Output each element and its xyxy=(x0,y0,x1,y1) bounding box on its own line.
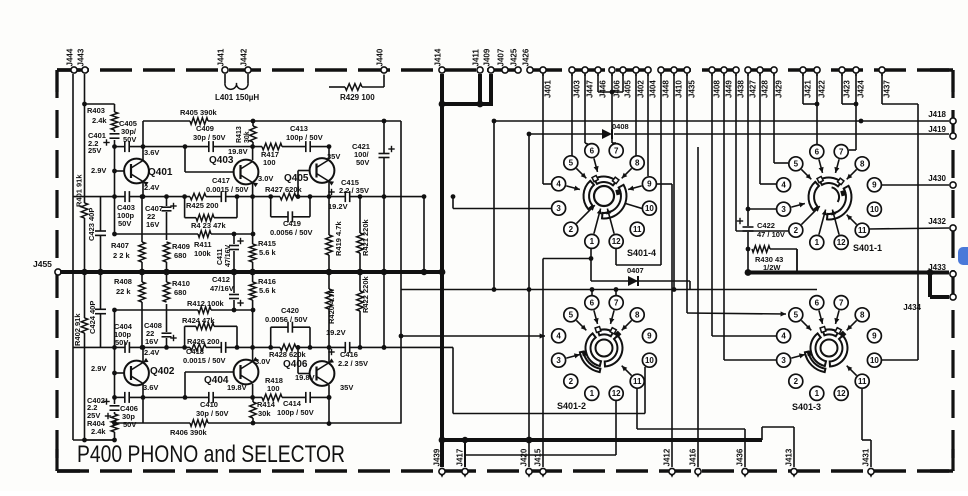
svg-text:C417: C417 xyxy=(212,176,230,185)
svg-text:0407: 0407 xyxy=(627,266,644,275)
resistor R405 xyxy=(190,118,208,125)
terminal J407 xyxy=(497,48,509,73)
wire J415 riser xyxy=(543,249,593,467)
svg-text:R420 4.7k: R420 4.7k xyxy=(327,289,336,324)
svg-text:S401-4: S401-4 xyxy=(627,248,656,258)
wire J436 riser xyxy=(637,389,745,467)
label R404 xyxy=(87,419,106,428)
wire J420 column xyxy=(528,134,530,467)
capacitor C413 xyxy=(306,141,310,152)
border frame bottom xyxy=(57,469,953,472)
svg-text:19.8V: 19.8V xyxy=(295,373,315,382)
terminal J455 xyxy=(33,259,61,275)
resistor R415 xyxy=(249,197,256,276)
svg-text:R428 620k: R428 620k xyxy=(269,350,307,359)
wire Q406 collector extension xyxy=(327,395,332,426)
wire J404 drop xyxy=(647,74,649,176)
border frame left xyxy=(55,70,58,471)
label C404 xyxy=(114,322,133,331)
resistor R412 xyxy=(112,307,255,314)
capacitor C410 xyxy=(209,392,213,403)
svg-text:Q405: Q405 xyxy=(284,173,309,184)
wire J408 drop xyxy=(712,74,776,336)
label R407 xyxy=(111,241,129,250)
svg-text:R4 23 47k: R4 23 47k xyxy=(191,221,226,230)
terminal J443 xyxy=(77,48,89,73)
svg-text:2.4V: 2.4V xyxy=(144,183,159,192)
svg-text:J448: J448 xyxy=(661,80,670,98)
capacitor C403 xyxy=(125,191,129,202)
wire J403 drop xyxy=(571,74,573,156)
terminal J446 xyxy=(595,67,607,98)
label 100p xyxy=(286,133,323,142)
terminal J419 xyxy=(928,125,956,139)
label R412 xyxy=(187,299,225,308)
resistor R423 loop xyxy=(185,197,237,221)
resistor R413 xyxy=(250,121,257,147)
border corner tr xyxy=(930,70,953,92)
wire bottom left link xyxy=(73,438,117,443)
capacitor C412 xyxy=(229,269,244,310)
wire J410 column xyxy=(673,74,675,291)
resistor R416 xyxy=(249,269,256,348)
label R411 xyxy=(194,240,212,249)
rotary switch S401-3 xyxy=(805,327,848,372)
label 680 xyxy=(174,251,187,260)
svg-text:C422: C422 xyxy=(757,221,775,230)
svg-text:30k: 30k xyxy=(244,131,251,143)
svg-text:Q402: Q402 xyxy=(150,366,175,377)
svg-text:Q401: Q401 xyxy=(148,167,173,178)
resistor R403 xyxy=(111,112,118,130)
svg-text:C411: C411 xyxy=(217,249,224,265)
label C416 xyxy=(340,350,358,359)
svg-text:6: 6 xyxy=(590,298,595,307)
svg-text:3: 3 xyxy=(781,356,786,365)
svg-text:19.8V: 19.8V xyxy=(227,383,247,392)
svg-text:2: 2 xyxy=(794,226,799,235)
label C414 xyxy=(283,399,302,408)
svg-text:47/16V: 47/16V xyxy=(225,244,232,267)
wire SW2-4 feed xyxy=(399,333,545,338)
label C421 xyxy=(352,142,370,151)
label R430 xyxy=(755,255,783,272)
switch arrows S401-1 xyxy=(791,159,856,234)
label 0.0015 xyxy=(183,356,226,365)
wire input column upper xyxy=(85,104,117,234)
label 100k xyxy=(194,249,212,258)
terminal J431 xyxy=(861,448,874,478)
label 2.2 xyxy=(339,186,369,195)
svg-text:1: 1 xyxy=(815,389,820,398)
label R426 xyxy=(187,337,220,346)
terminal J440 xyxy=(376,48,388,73)
label 3.6V xyxy=(144,148,159,157)
svg-text:9: 9 xyxy=(647,332,652,341)
resistor R409 xyxy=(163,242,170,275)
label 30p/ xyxy=(121,127,137,136)
svg-text:J415: J415 xyxy=(533,448,542,466)
svg-text:J421: J421 xyxy=(803,80,812,98)
wire C423 column xyxy=(97,197,103,348)
svg-text:R415: R415 xyxy=(258,239,276,248)
terminal J447 xyxy=(582,67,594,98)
label R415 xyxy=(258,239,276,248)
label Q406 xyxy=(283,359,308,370)
svg-text:R406 390k: R406 390k xyxy=(170,428,208,437)
svg-text:R405 390k: R405 390k xyxy=(180,108,218,117)
svg-text:11: 11 xyxy=(633,377,642,386)
resistor R408 xyxy=(139,269,146,350)
transistor Q405 xyxy=(296,147,335,199)
switch arrows S401-4 xyxy=(566,158,641,233)
svg-text:J438: J438 xyxy=(736,80,745,98)
border corner tl xyxy=(57,70,80,92)
transistor Q403 xyxy=(185,147,258,199)
label 0.0015 xyxy=(206,185,249,194)
svg-text:J439: J439 xyxy=(432,448,441,466)
wire output column xyxy=(400,121,402,424)
svg-text:8: 8 xyxy=(860,311,865,320)
wire collector rail lower xyxy=(115,395,332,400)
label R409 xyxy=(172,242,190,251)
wire J429 drop xyxy=(774,74,788,163)
label 2.4V xyxy=(144,183,159,192)
resistor R402 xyxy=(73,313,88,346)
svg-text:5: 5 xyxy=(569,159,574,168)
terminal J420 xyxy=(519,448,532,478)
resistor R418 xyxy=(262,394,282,401)
terminal J401 xyxy=(540,67,552,98)
svg-text:2.2 / 35V: 2.2 / 35V xyxy=(339,186,369,195)
svg-text:J412: J412 xyxy=(662,448,671,466)
label S401-2 xyxy=(557,401,586,411)
svg-text:2 2 k: 2 2 k xyxy=(113,251,131,260)
svg-text:100: 100 xyxy=(267,384,280,393)
label C420 xyxy=(281,306,299,315)
wire J449 drop xyxy=(724,74,776,360)
label C401 xyxy=(88,131,106,140)
terminal J426 xyxy=(522,48,534,73)
svg-text:2: 2 xyxy=(569,377,574,386)
wire J406 drop xyxy=(598,74,623,143)
wire J428 drop xyxy=(760,74,776,184)
wire J437 drop xyxy=(882,74,918,360)
label 680 xyxy=(174,288,187,297)
label 2.2 xyxy=(338,359,368,368)
svg-text:S401-2: S401-2 xyxy=(557,401,586,411)
inductor L401 xyxy=(215,74,259,102)
label R403 xyxy=(87,106,105,115)
label 16V xyxy=(146,220,159,229)
wire long mid row xyxy=(401,287,817,292)
svg-text:50V: 50V xyxy=(356,158,369,167)
label 3.6V xyxy=(143,383,158,392)
label R425 xyxy=(186,201,219,210)
label 30p xyxy=(193,133,226,142)
svg-text:R402 91k: R402 91k xyxy=(73,313,82,346)
label 25V xyxy=(88,146,101,155)
transistor Q401 xyxy=(115,147,149,199)
svg-text:680: 680 xyxy=(174,251,187,260)
svg-text:J432: J432 xyxy=(928,217,946,226)
wire J432 row xyxy=(869,228,949,229)
border corner bl xyxy=(57,449,80,471)
svg-text:2.4k: 2.4k xyxy=(91,427,106,436)
svg-text:2.9V: 2.9V xyxy=(91,166,106,175)
svg-text:J455: J455 xyxy=(33,259,52,269)
svg-text:C418: C418 xyxy=(186,347,204,356)
terminal J434 xyxy=(903,294,956,312)
svg-text:J407: J407 xyxy=(497,48,506,66)
wire J424 drop xyxy=(849,74,856,150)
resistor R424 loop xyxy=(185,323,237,347)
svg-text:J429: J429 xyxy=(774,80,783,98)
svg-text:11: 11 xyxy=(633,225,642,234)
wire J401 drop xyxy=(543,74,551,184)
terminal J428 xyxy=(757,67,769,98)
svg-text:R414: R414 xyxy=(257,400,276,409)
svg-text:J446: J446 xyxy=(598,80,607,98)
svg-text:R427 620k: R427 620k xyxy=(265,185,303,194)
svg-text:25V: 25V xyxy=(88,146,101,155)
wire stub SW2-6 xyxy=(591,290,593,296)
svg-text:J403: J403 xyxy=(572,80,581,98)
terminal J422 xyxy=(814,67,826,98)
svg-text:R409: R409 xyxy=(172,242,190,251)
svg-text:10: 10 xyxy=(645,356,654,365)
label R408 xyxy=(114,277,132,286)
svg-text:50V: 50V xyxy=(123,420,136,429)
svg-text:0408: 0408 xyxy=(612,122,629,131)
label S401-4 xyxy=(627,248,656,258)
terminal J436 xyxy=(735,448,748,478)
svg-text:R425 200: R425 200 xyxy=(186,201,219,210)
svg-text:3: 3 xyxy=(781,205,786,214)
svg-text:J437: J437 xyxy=(882,80,891,98)
wire feedback rail lower xyxy=(112,397,401,425)
svg-text:100k: 100k xyxy=(194,249,212,258)
capacitor C401 xyxy=(103,134,119,146)
label 22 xyxy=(146,329,154,338)
svg-text:J409: J409 xyxy=(483,48,492,66)
svg-text:J443: J443 xyxy=(77,48,86,66)
svg-text:J410: J410 xyxy=(674,80,683,98)
terminal J442 xyxy=(240,48,252,73)
svg-text:R407: R407 xyxy=(111,241,129,250)
terminal J421 xyxy=(800,67,812,98)
svg-text:J411: J411 xyxy=(472,49,481,67)
svg-text:16V: 16V xyxy=(145,337,158,346)
svg-text:J436: J436 xyxy=(735,448,744,466)
capacitor C404 xyxy=(125,342,129,353)
svg-text:J406: J406 xyxy=(612,80,621,98)
svg-text:1: 1 xyxy=(590,237,595,246)
svg-text:8: 8 xyxy=(635,311,640,320)
svg-text:R408: R408 xyxy=(114,277,132,286)
svg-text:1/2W: 1/2W xyxy=(763,263,781,272)
wire feedback rail upper xyxy=(143,119,401,147)
terminal J403 xyxy=(569,67,581,98)
label C402 xyxy=(87,396,105,405)
svg-text:50V: 50V xyxy=(123,135,136,144)
svg-text:J431: J431 xyxy=(861,448,870,466)
label 2 xyxy=(113,251,131,260)
terminal J444 xyxy=(66,48,78,73)
wire SW4-10 link xyxy=(624,203,642,209)
svg-text:R424 47k: R424 47k xyxy=(182,316,215,325)
svg-text:4: 4 xyxy=(781,181,786,190)
svg-text:35V: 35V xyxy=(327,152,340,161)
capacitor C402 xyxy=(103,398,119,410)
svg-text:0.0015 / 50V: 0.0015 / 50V xyxy=(183,356,226,365)
svg-text:19.2V: 19.2V xyxy=(328,202,348,211)
label 30p xyxy=(196,409,229,418)
svg-text:C409: C409 xyxy=(196,124,214,133)
label S401-1 xyxy=(853,243,882,253)
svg-text:R410: R410 xyxy=(172,279,190,288)
svg-text:3: 3 xyxy=(556,356,561,365)
capacitor C416 xyxy=(328,342,349,355)
label 35V xyxy=(340,383,353,392)
label 5.6 xyxy=(259,248,277,257)
svg-text:J401: J401 xyxy=(543,80,552,98)
wire J417 riser xyxy=(462,401,616,467)
wire mid rail upper xyxy=(73,194,424,199)
svg-text:J413: J413 xyxy=(784,448,793,466)
svg-text:2.4V: 2.4V xyxy=(144,348,159,357)
svg-text:12: 12 xyxy=(612,237,621,246)
svg-text:C424 40P: C424 40P xyxy=(88,301,97,334)
wire right return column xyxy=(421,194,427,275)
terminal J416 xyxy=(688,448,701,478)
terminal J433 xyxy=(928,263,956,277)
svg-text:2.4k: 2.4k xyxy=(92,116,107,125)
label R4 xyxy=(191,221,226,230)
terminal J409 xyxy=(483,48,495,73)
blue artifact xyxy=(958,247,968,265)
label R427 xyxy=(265,185,303,194)
svg-text:12: 12 xyxy=(837,238,846,247)
capacitor C411 xyxy=(229,234,244,275)
label R418 xyxy=(265,376,283,385)
label C413 xyxy=(290,124,308,133)
rotary switch S401-2 xyxy=(580,327,623,372)
terminal J417 xyxy=(455,448,468,478)
label 19.8V xyxy=(228,147,248,156)
wire J430 row xyxy=(881,184,949,186)
terminal J424 xyxy=(853,67,865,98)
border frame right xyxy=(951,70,954,471)
wire input column lower xyxy=(85,310,117,440)
label R416 xyxy=(258,277,276,286)
svg-text:C413: C413 xyxy=(290,124,308,133)
terminal J423 xyxy=(839,67,851,98)
capacitor C415 xyxy=(328,189,349,202)
svg-text:J424: J424 xyxy=(856,80,865,98)
switch contacts S401-3 xyxy=(777,296,882,401)
svg-text:J422: J422 xyxy=(817,80,826,98)
label R414 xyxy=(257,400,276,409)
svg-text:680: 680 xyxy=(174,288,187,297)
terminal J414 xyxy=(434,48,446,73)
diode 0408 xyxy=(602,122,629,139)
svg-text:22 k: 22 k xyxy=(116,287,131,296)
capacitor C422 xyxy=(737,209,754,273)
label 100 xyxy=(267,384,280,393)
capacitor C424 xyxy=(88,301,106,334)
terminal J412 xyxy=(662,448,675,478)
wire J413 riser xyxy=(762,427,794,467)
capacitor C421 xyxy=(379,121,395,197)
capacitor C414 xyxy=(306,392,310,403)
svg-text:35V: 35V xyxy=(340,383,353,392)
svg-text:3.0V: 3.0V xyxy=(258,174,273,183)
switch arrows S401-3 xyxy=(791,310,856,375)
terminal J404 xyxy=(645,67,657,98)
resistor R430 xyxy=(752,246,797,273)
svg-text:8: 8 xyxy=(635,159,640,168)
wire J446 drop xyxy=(597,74,599,92)
svg-text:J425: J425 xyxy=(510,48,519,66)
svg-text:Q404: Q404 xyxy=(204,375,229,386)
svg-text:Q403: Q403 xyxy=(209,155,234,166)
terminal J439 xyxy=(432,448,445,478)
svg-text:50V: 50V xyxy=(118,219,131,228)
wire thick J433 link xyxy=(927,269,949,276)
capacitor C407 xyxy=(162,197,177,240)
label C415 xyxy=(341,178,359,187)
wire J438 drop xyxy=(736,74,788,231)
label 100p xyxy=(277,408,314,417)
plus C402 xyxy=(105,413,111,419)
svg-text:J427: J427 xyxy=(748,80,757,98)
label R428 xyxy=(269,350,307,359)
label S401-3 xyxy=(792,402,821,412)
svg-text:J426: J426 xyxy=(522,48,531,66)
svg-text:R416: R416 xyxy=(258,277,276,286)
resistor R401 xyxy=(75,174,88,218)
label C408 xyxy=(144,321,162,330)
label R422 xyxy=(361,275,370,313)
svg-text:5.6 k: 5.6 k xyxy=(259,286,277,295)
svg-text:C423 40P: C423 40P xyxy=(87,208,96,241)
terminal J435 xyxy=(684,67,696,98)
wire J427 drop xyxy=(746,74,776,211)
svg-text:J441: J441 xyxy=(217,48,226,66)
svg-text:0.0015 / 50V: 0.0015 / 50V xyxy=(206,185,249,194)
terminal J429 xyxy=(771,67,783,98)
wire 0407 row xyxy=(591,259,690,290)
svg-text:9: 9 xyxy=(872,181,877,190)
label 2.9V xyxy=(91,364,106,373)
wire thick J411 drop xyxy=(478,74,482,104)
label Q404 xyxy=(204,375,229,386)
svg-text:7: 7 xyxy=(839,298,844,307)
svg-text:4: 4 xyxy=(556,332,561,341)
label Q402 xyxy=(150,366,175,377)
resistor R404 xyxy=(111,414,118,432)
wire J447 drop xyxy=(585,74,590,145)
wire thick J455 bus xyxy=(60,269,445,276)
label 100p xyxy=(114,330,132,339)
wire J443 column xyxy=(81,74,87,442)
terminal J406 xyxy=(609,67,621,98)
label 5.6 xyxy=(259,286,277,295)
label 19.2V xyxy=(326,328,346,337)
label 19.8V xyxy=(295,373,315,382)
svg-text:6: 6 xyxy=(590,146,595,155)
